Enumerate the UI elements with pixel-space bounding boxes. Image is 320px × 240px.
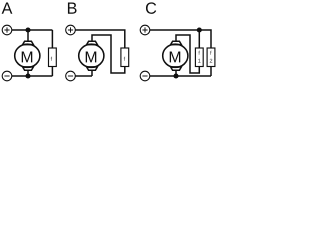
resistor A (49, 48, 57, 67)
wire bottom B (75, 75, 92, 77)
brush top B (87, 41, 98, 44)
brush bottom A (23, 67, 34, 70)
wire stub bottom A (27, 70, 29, 76)
wire top C (150, 30, 211, 48)
label A (2, 3, 13, 14)
wire stub bottom B (91, 70, 93, 76)
brush bottom C (171, 67, 182, 70)
battery minus terminal C (140, 71, 150, 81)
battery minus terminal B (66, 71, 76, 81)
resistor 1 (195, 48, 203, 67)
resistor 2 (207, 48, 215, 67)
battery plus terminal A (2, 25, 12, 35)
brush top C (171, 41, 182, 44)
wire stub top A (27, 30, 29, 41)
resistor B (121, 48, 129, 67)
wire top B (75, 30, 125, 48)
battery plus terminal B (66, 25, 76, 35)
brush bottom B (87, 67, 98, 70)
node bottom C (173, 73, 178, 78)
motor B (79, 44, 104, 67)
motor C (163, 44, 188, 67)
wire loop B resistor-to-brush (92, 35, 125, 73)
wire resistor1 top C (198, 30, 200, 48)
label B (68, 3, 77, 14)
motor A (15, 44, 40, 67)
wire top A (12, 29, 53, 31)
label C (146, 2, 156, 13)
node top C (197, 27, 202, 32)
wire loop C resistor1-to-brush (176, 35, 199, 73)
battery plus terminal C (140, 25, 150, 35)
node bottom A (25, 73, 30, 78)
wire stub bottom C (175, 70, 177, 76)
wire right side A (51, 30, 53, 76)
wire resistor2 bottom C (210, 67, 212, 77)
battery minus terminal A (2, 71, 12, 81)
wire bottom A (12, 75, 53, 77)
node top A (25, 27, 30, 32)
wire bottom C (150, 75, 211, 77)
brush top A (23, 41, 34, 44)
